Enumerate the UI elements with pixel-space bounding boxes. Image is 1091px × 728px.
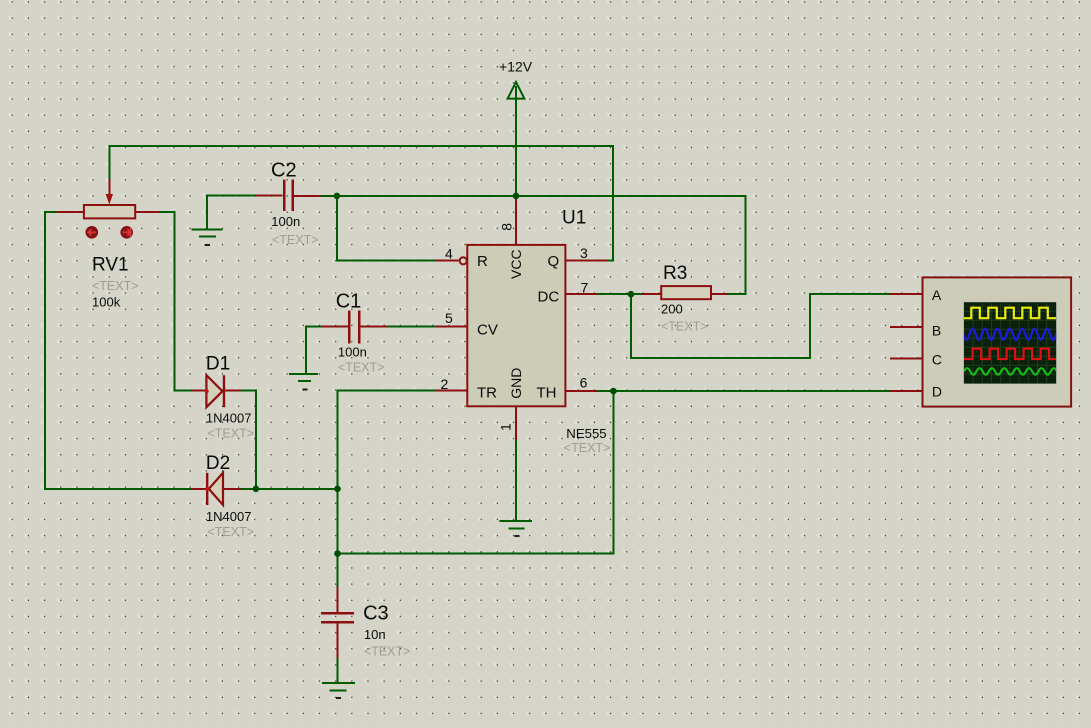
svg-text:R3: R3 [663,263,687,284]
wire RV1 right lead red [135,211,160,213]
wire pin7 stub U1 [565,293,597,295]
wire RV1 left lead green [44,211,57,213]
wire pin1 stub U1 [515,406,517,440]
op-amp U1 body (NE555 IC) [467,245,565,406]
svg-text:10n: 10n [364,627,386,642]
node DC junction [628,291,635,298]
ground (U1 pin1) [500,521,533,536]
svg-text:CV: CV [477,322,498,339]
svg-text:D2: D2 [206,453,230,474]
wire R3 right green [728,293,746,295]
wire C1 left green [305,326,322,328]
svg-text:100n: 100n [338,344,367,359]
potentiometer RV1 [84,194,135,239]
svg-text:1N4007: 1N4007 [206,411,252,426]
svg-text:100k: 100k [92,294,121,309]
wire pin3 green segment [608,259,614,261]
ground (C2) [192,230,223,245]
wire left vertical x44 [44,211,46,490]
ground (C1) [289,374,318,389]
wire +12V riser [515,86,517,196]
svg-text:+12V: +12V [499,59,533,75]
wire pin8 stub U1 [515,196,517,245]
node C3 junction [334,550,341,557]
wire C3 bottom lead [337,624,339,659]
svg-text:<TEXT>: <TEXT> [364,645,411,659]
wire C3 bottom green [337,658,339,682]
svg-text:DC: DC [538,288,560,305]
svg-text:4: 4 [445,245,453,261]
node VCC junction at pin8 [513,193,520,200]
wire pin3 stub U1 [565,259,608,261]
wire D1 cathode lead [225,389,241,391]
svg-text:C3: C3 [363,603,389,625]
wire y294 run to scope A [809,293,890,295]
wire TH row to scope D [598,390,891,392]
svg-text:GND: GND [508,368,524,399]
wire pin1 green [515,440,517,520]
node C2-right junction [334,193,341,200]
capacitor C3 [321,613,354,622]
wire C2 ground riser [206,194,208,228]
svg-text:1N4007: 1N4007 [206,509,252,524]
wire vertical x631 down from DC [630,293,632,358]
wire vertical x810 up [809,293,811,359]
svg-text:6: 6 [580,374,588,390]
svg-text:<TEXT>: <TEXT> [208,427,255,441]
trace channel D green [964,368,1057,374]
svg-text:<TEXT>: <TEXT> [564,441,611,455]
capacitor C1 [349,310,359,343]
wire top net Q-to-wiper y146 [108,145,614,147]
svg-text:VCC: VCC [508,249,524,279]
wire TR row y390 [337,389,438,391]
svg-text:RV1: RV1 [92,255,129,276]
oscilloscope display [963,301,1063,384]
svg-text:R: R [477,253,488,270]
wire D2 anode lead [191,488,206,490]
wire scope pin A stub [890,293,923,295]
svg-text:100n: 100n [271,214,300,229]
wire vertical x745 R3-to-VCCnet [744,195,746,294]
wire C2 left green [206,194,256,196]
wire pin4 row green [337,260,435,262]
trace channel C red [964,349,1056,359]
wire vertical x337 TR-to-C3 [337,389,339,586]
wire C3 top lead [337,587,339,612]
wire vertical x256 D1-to-D2 [255,389,257,488]
wire scope pin C stub [890,357,923,359]
wire RV1 wiper red [108,179,110,196]
wire pin4 stub U1 [435,260,458,262]
wire R3 left lead [641,293,661,295]
wire vertical x174 to D1 [174,211,176,391]
svg-text:C: C [932,352,942,368]
wire C2 right green [321,195,337,197]
svg-text:TR: TR [477,385,497,402]
wire scope pin D stub [890,390,923,392]
wire pin7 green segment [598,293,642,295]
diode D2 [205,473,223,505]
wire R3 right lead [711,293,728,295]
wire D2 cathode run to x337 [241,488,338,490]
wire D1 cathode green [241,389,257,391]
wire bottom run y553 [337,553,615,555]
wire D2 cathode lead [224,488,241,490]
svg-text:200: 200 [661,302,683,317]
wire RV1 right lead green [160,211,176,213]
wire D1 anode lead [191,389,207,391]
wire D1 anode green [174,389,192,391]
trace channel A yellow [964,308,1056,319]
svg-text:<TEXT>: <TEXT> [661,320,708,334]
svg-text:B: B [932,323,941,339]
wire pin2 stub U1 [435,389,467,391]
svg-text:3: 3 [580,245,588,261]
svg-text:D: D [932,384,942,400]
svg-text:D1: D1 [206,354,230,375]
oscilloscope body [923,277,1072,406]
svg-text:8: 8 [499,223,515,231]
wire C2 left lead [256,194,283,196]
trace channel B blue [963,329,1062,340]
wire D2 anode run y489 [44,488,191,490]
wire vertical x613 Q riser [612,145,614,260]
wire y358 run right [630,357,810,359]
capacitor C2 [284,180,293,212]
svg-text:A: A [932,287,942,303]
svg-text:1: 1 [498,423,514,431]
svg-text:7: 7 [581,280,589,296]
svg-text:<TEXT>: <TEXT> [338,361,385,375]
wire pin5 stub U1 [435,326,467,328]
resistor R3 [661,286,711,299]
wire pin6 stub U1 [565,390,597,392]
wire C1 left lead [322,326,348,328]
svg-text:<TEXT>: <TEXT> [272,233,319,247]
svg-text:<TEXT>: <TEXT> [208,525,255,539]
node TR-D2 junction [334,486,341,493]
svg-text:C1: C1 [336,291,362,313]
svg-text:<TEXT>: <TEXT> [92,279,139,293]
svg-text:2: 2 [441,376,449,392]
pin 4 inversion bubble [460,257,467,264]
svg-text:C2: C2 [271,159,297,181]
wire scope pin B stub [890,326,923,328]
node TH junction [610,388,617,395]
wire C2 right lead [294,195,321,197]
wire wiper riser green [108,145,110,179]
wire C1 right green [388,326,435,328]
svg-text:U1: U1 [562,208,586,229]
ground (C3) [322,683,355,698]
power +12V symbol [508,82,525,99]
wire vertical x613 TH-to-bottom [612,391,614,554]
wire C1 right lead [359,326,388,328]
diode D1 [205,375,224,407]
wire vertical x337 C2-to-pin4 [336,195,338,262]
svg-text:TH: TH [537,384,557,401]
wire C1 ground riser [305,326,307,374]
node D1-D2 junction [253,486,260,493]
svg-text:Q: Q [548,253,560,270]
wire VCC net y196 [337,195,746,197]
svg-text:5: 5 [445,310,453,326]
wire RV1 left lead red [57,211,84,213]
svg-text:NE555: NE555 [566,426,606,441]
